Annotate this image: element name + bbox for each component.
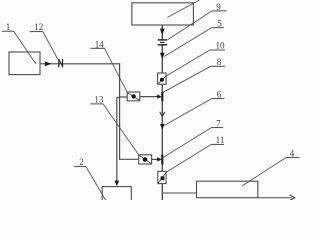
svg-text:11: 11 [216, 135, 225, 145]
svg-text:5: 5 [217, 19, 222, 29]
svg-text:1: 1 [6, 22, 11, 32]
svg-text:4: 4 [290, 148, 295, 158]
svg-text:8: 8 [217, 57, 222, 67]
svg-text:6: 6 [217, 89, 222, 99]
svg-text:10: 10 [216, 41, 226, 51]
svg-text:2: 2 [79, 157, 84, 167]
svg-text:7: 7 [216, 118, 221, 128]
svg-text:12: 12 [34, 22, 43, 32]
svg-text:13: 13 [94, 95, 104, 105]
